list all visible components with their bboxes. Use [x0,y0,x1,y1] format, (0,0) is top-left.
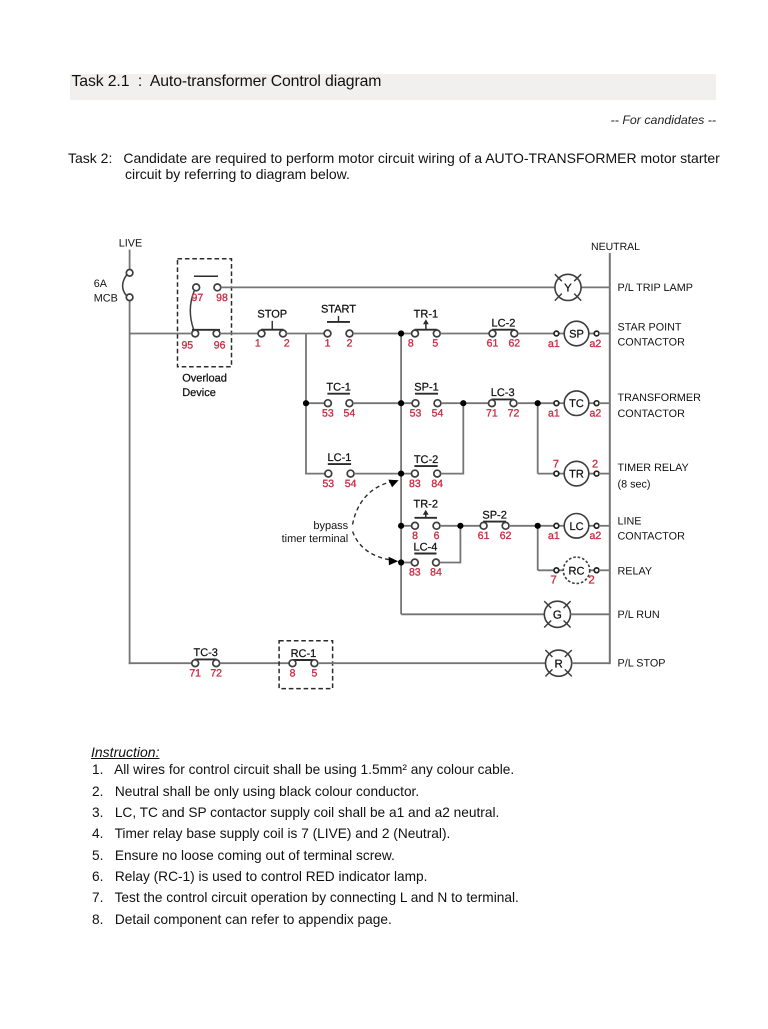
junction bus/LC-4 row [398,559,404,565]
svg-text:P/L STOP: P/L STOP [618,658,666,670]
svg-text:RC-1: RC-1 [291,648,317,660]
svg-text:TC-2: TC-2 [414,454,438,466]
wire LC-2 to SP coil [518,333,559,335]
svg-text:83: 83 [409,567,421,579]
contact STOP [257,308,287,337]
wire LC-4 to riser [439,562,460,564]
overload trip contact 97/98 [190,284,221,330]
wire junction to LC coil [538,525,559,527]
svg-text:61: 61 [478,530,490,542]
svg-text:53: 53 [322,478,334,490]
pin labels 53/54 of LC-1 [322,478,356,490]
contact LC-4 [411,541,439,566]
junction riser/TR-2 row [457,523,463,529]
wire bus to run lamp [401,613,544,615]
wire TR-1 to LC-2 [440,333,489,335]
pin labels 53/54 of TC-1 [322,407,355,419]
task 2 paragraph [68,150,748,184]
dashed arrow to LC-4 junction [353,532,399,566]
svg-text:53: 53 [410,407,422,419]
pin labels 61/62 of LC-2 [487,338,521,350]
svg-text:CONTACTOR: CONTACTOR [618,530,686,542]
svg-text:LC-3: LC-3 [491,387,515,399]
svg-text:a2: a2 [590,338,602,350]
pin labels 8/5 of RC-1 [290,667,318,679]
contact SP-1 [412,382,441,407]
wire stop lamp to neutral [572,662,610,664]
svg-text:71: 71 [189,667,201,679]
dashed arrow to TC-2 junction [353,480,399,525]
svg-text:a1: a1 [548,338,560,350]
svg-text:SP: SP [569,329,584,341]
contact SP-2 [480,509,509,529]
pin labels 1/2 of START [325,338,353,350]
contact LC-3 [489,387,517,406]
svg-text:72: 72 [508,407,520,419]
contact TR-1 [412,308,441,337]
wire SP-1 to LC-3 [441,402,489,404]
coil TC with terminals a1/a2 [548,391,601,420]
contact TC-3 [192,647,220,666]
wire TR-2 to SP-2 [440,525,480,527]
svg-text:2: 2 [592,458,598,470]
svg-text:TIMER RELAY: TIMER RELAY [618,462,689,474]
svg-text:P/L TRIP LAMP: P/L TRIP LAMP [618,282,693,294]
svg-text:LC: LC [569,521,583,533]
wire riser LC-4 to TR-2 rung [459,526,461,564]
contact LC-1 [325,452,354,477]
svg-text:61: 61 [487,338,499,350]
svg-text:LINE: LINE [618,515,642,527]
svg-text:NEUTRAL: NEUTRAL [591,241,640,253]
pin labels 61/62 of SP-2 [478,530,512,542]
wire RC coil to neutral [599,569,610,571]
pin labels 83/84 of TC-2 [409,478,443,490]
pin labels 83/84 of LC-4 [409,567,442,579]
wire run lamp to neutral [571,613,610,615]
indicator lamp Y [555,274,581,300]
pin labels 1/2 of STOP [255,338,290,350]
contact LC-2 [489,318,518,337]
contact TC-1 [325,382,353,407]
pin labels 53/54 of SP-1 [410,407,444,419]
svg-text:MCB: MCB [94,293,118,305]
wire live to overload 95 [130,333,192,335]
wire live bus top (LIVE to MCB) [129,250,131,270]
svg-text:2: 2 [284,338,290,350]
svg-text:TC: TC [569,398,584,410]
svg-text:54: 54 [345,478,357,490]
junction bus/TR-2 row [398,523,404,529]
overload heater bar [194,275,218,277]
wire LC coil to neutral [599,525,610,527]
svg-text:5: 5 [432,338,438,350]
annotation: bypass timer terminal [282,520,349,545]
wire bus to TC-1 [306,402,325,404]
svg-text:CONTACTOR: CONTACTOR [618,408,686,420]
wire LC-3 to TC coil [517,402,559,404]
svg-text:1: 1 [325,338,331,350]
svg-text:CONTACTOR: CONTACTOR [618,337,686,349]
svg-text:84: 84 [430,567,442,579]
svg-text:SP-2: SP-2 [482,509,506,521]
svg-text:54: 54 [344,407,356,419]
svg-text:97: 97 [192,292,204,304]
wire trip lamp to neutral [581,286,610,288]
wire START to TR-1 [353,333,412,335]
svg-text:Overload: Overload [182,373,227,385]
wire overload 98 to trip lamp [221,286,555,288]
pin labels 95/96 [181,340,225,352]
contact RC-1 [289,648,318,667]
svg-text:8: 8 [408,338,414,350]
coil TR with terminals 7/2 [553,458,599,486]
svg-text:7: 7 [550,575,556,587]
svg-text:72: 72 [210,667,222,679]
junction LC-3/TR drop [535,400,541,406]
wire TC-3 to RC-1 [220,662,290,664]
wire LC-1 to TC-2 [354,473,412,475]
wire bus to LC-4 [401,562,411,564]
svg-text:TRANSFORMER: TRANSFORMER [618,392,702,404]
svg-text:SP-1: SP-1 [414,382,438,394]
pin labels 71/72 of TC-3 [189,667,222,679]
svg-text:LIVE: LIVE [119,238,142,250]
wire TC-1 to SP-1 [353,402,412,404]
overload device dashed enclosure [178,259,232,367]
instruction heading [91,744,159,760]
wire SP coil to neutral [599,333,610,335]
wire STOP to START [286,333,324,335]
wire bus to LC-1 [306,473,325,475]
coil SP with terminals a1/a2 [548,321,601,350]
indicator lamp R [545,650,571,676]
wire drop LC-3 junction to timer relay [537,403,539,473]
svg-text:G: G [553,610,562,622]
svg-text:TR-2: TR-2 [414,498,438,510]
coil RC with terminals 7/2 [550,557,599,587]
svg-text:LC-2: LC-2 [491,318,515,330]
svg-text:a2: a2 [590,530,602,542]
wire to RC coil [538,569,559,571]
svg-text:Y: Y [564,283,572,295]
svg-text:95: 95 [181,340,193,352]
svg-text:54: 54 [432,407,444,419]
svg-text:a2: a2 [590,408,602,420]
svg-text:83: 83 [409,478,421,490]
coil LC with terminals a1/a2 [548,514,601,543]
svg-text:LC-1: LC-1 [328,452,352,464]
svg-text:5: 5 [311,667,317,679]
wire overload 96 to STOP [220,333,258,335]
svg-text:96: 96 [214,340,226,352]
overload NC contact 95/96 [192,330,220,337]
contact TC-2 [412,454,441,477]
wire neutral bus [609,253,611,664]
svg-text:71: 71 [486,407,498,419]
svg-text:timer terminal: timer terminal [282,533,349,545]
junction bus/TC-2 row [398,471,404,477]
junction main rung/bus [398,330,404,336]
pin labels 71/72 of LC-3 [486,407,519,419]
wire drop SP-2 junction to relay coil [537,526,539,571]
pin labels 8/5 of TR-1 [408,338,439,350]
wire bus from main rung down to LC-1 row [305,334,307,475]
pin labels 97/98 [192,292,228,304]
pin labels 8/6 of TR-2 [412,530,440,542]
instruction list [92,759,519,930]
svg-text:TC-3: TC-3 [193,647,217,659]
svg-text:bypass: bypass [313,520,348,532]
svg-text:98: 98 [216,292,228,304]
svg-text:TR-1: TR-1 [414,308,438,320]
svg-text:6: 6 [434,530,440,542]
wire TC-2 to riser [441,473,464,475]
svg-text:a1: a1 [548,408,560,420]
wire bus START-right down to P/L RUN row [400,334,402,615]
svg-text:TR: TR [569,469,584,481]
svg-text:LC-4: LC-4 [413,541,437,553]
wire TC coil to neutral [599,402,610,404]
svg-text:7: 7 [553,458,559,470]
svg-text:8: 8 [290,667,296,679]
wire TR coil to neutral [599,473,610,475]
wire live bus (MCB down to bottom rung) [129,301,131,664]
contact START [321,303,356,337]
svg-text:6A: 6A [94,278,108,290]
svg-text:1: 1 [255,338,261,350]
svg-text:(8 sec): (8 sec) [618,478,651,490]
svg-text:53: 53 [322,407,334,419]
svg-text:84: 84 [431,478,443,490]
junction bus/TC-1 row [303,400,309,406]
wire riser TC-2 to SP-1/LC-3 rung [462,403,464,474]
svg-text:62: 62 [500,530,512,542]
junction riser/LC-3 row [460,400,466,406]
svg-text:8: 8 [412,530,418,542]
svg-text:START: START [321,303,356,315]
wire SP-2 to LC junction [509,525,538,527]
circuit breaker 6A MCB [94,270,133,305]
for candidates note [0,113,716,127]
junction bus/SP-1 row [398,400,404,406]
junction SP-2/RC drop [535,523,541,529]
contact TR-2 [412,498,440,529]
RC-1 dashed enclosure [279,641,333,689]
svg-text:a1: a1 [548,530,560,542]
svg-text:RC: RC [569,565,585,577]
wire bus to TR-2 [401,525,412,527]
svg-text:STAR POINT: STAR POINT [618,322,682,334]
title bar [70,74,717,101]
svg-text:STOP: STOP [257,308,287,320]
svg-text:Device: Device [182,387,216,399]
wire to TR coil [538,473,559,475]
svg-text:2: 2 [588,575,594,587]
indicator lamp G [544,601,570,627]
svg-text:TC-1: TC-1 [326,382,350,394]
wire live to TC-3 [129,662,192,664]
wire RC-1 to stop lamp [318,662,546,664]
svg-text:R: R [554,658,562,670]
svg-text:62: 62 [508,338,520,350]
svg-text:RELAY: RELAY [618,566,653,578]
svg-text:P/L RUN: P/L RUN [618,609,660,621]
svg-text:2: 2 [347,338,353,350]
